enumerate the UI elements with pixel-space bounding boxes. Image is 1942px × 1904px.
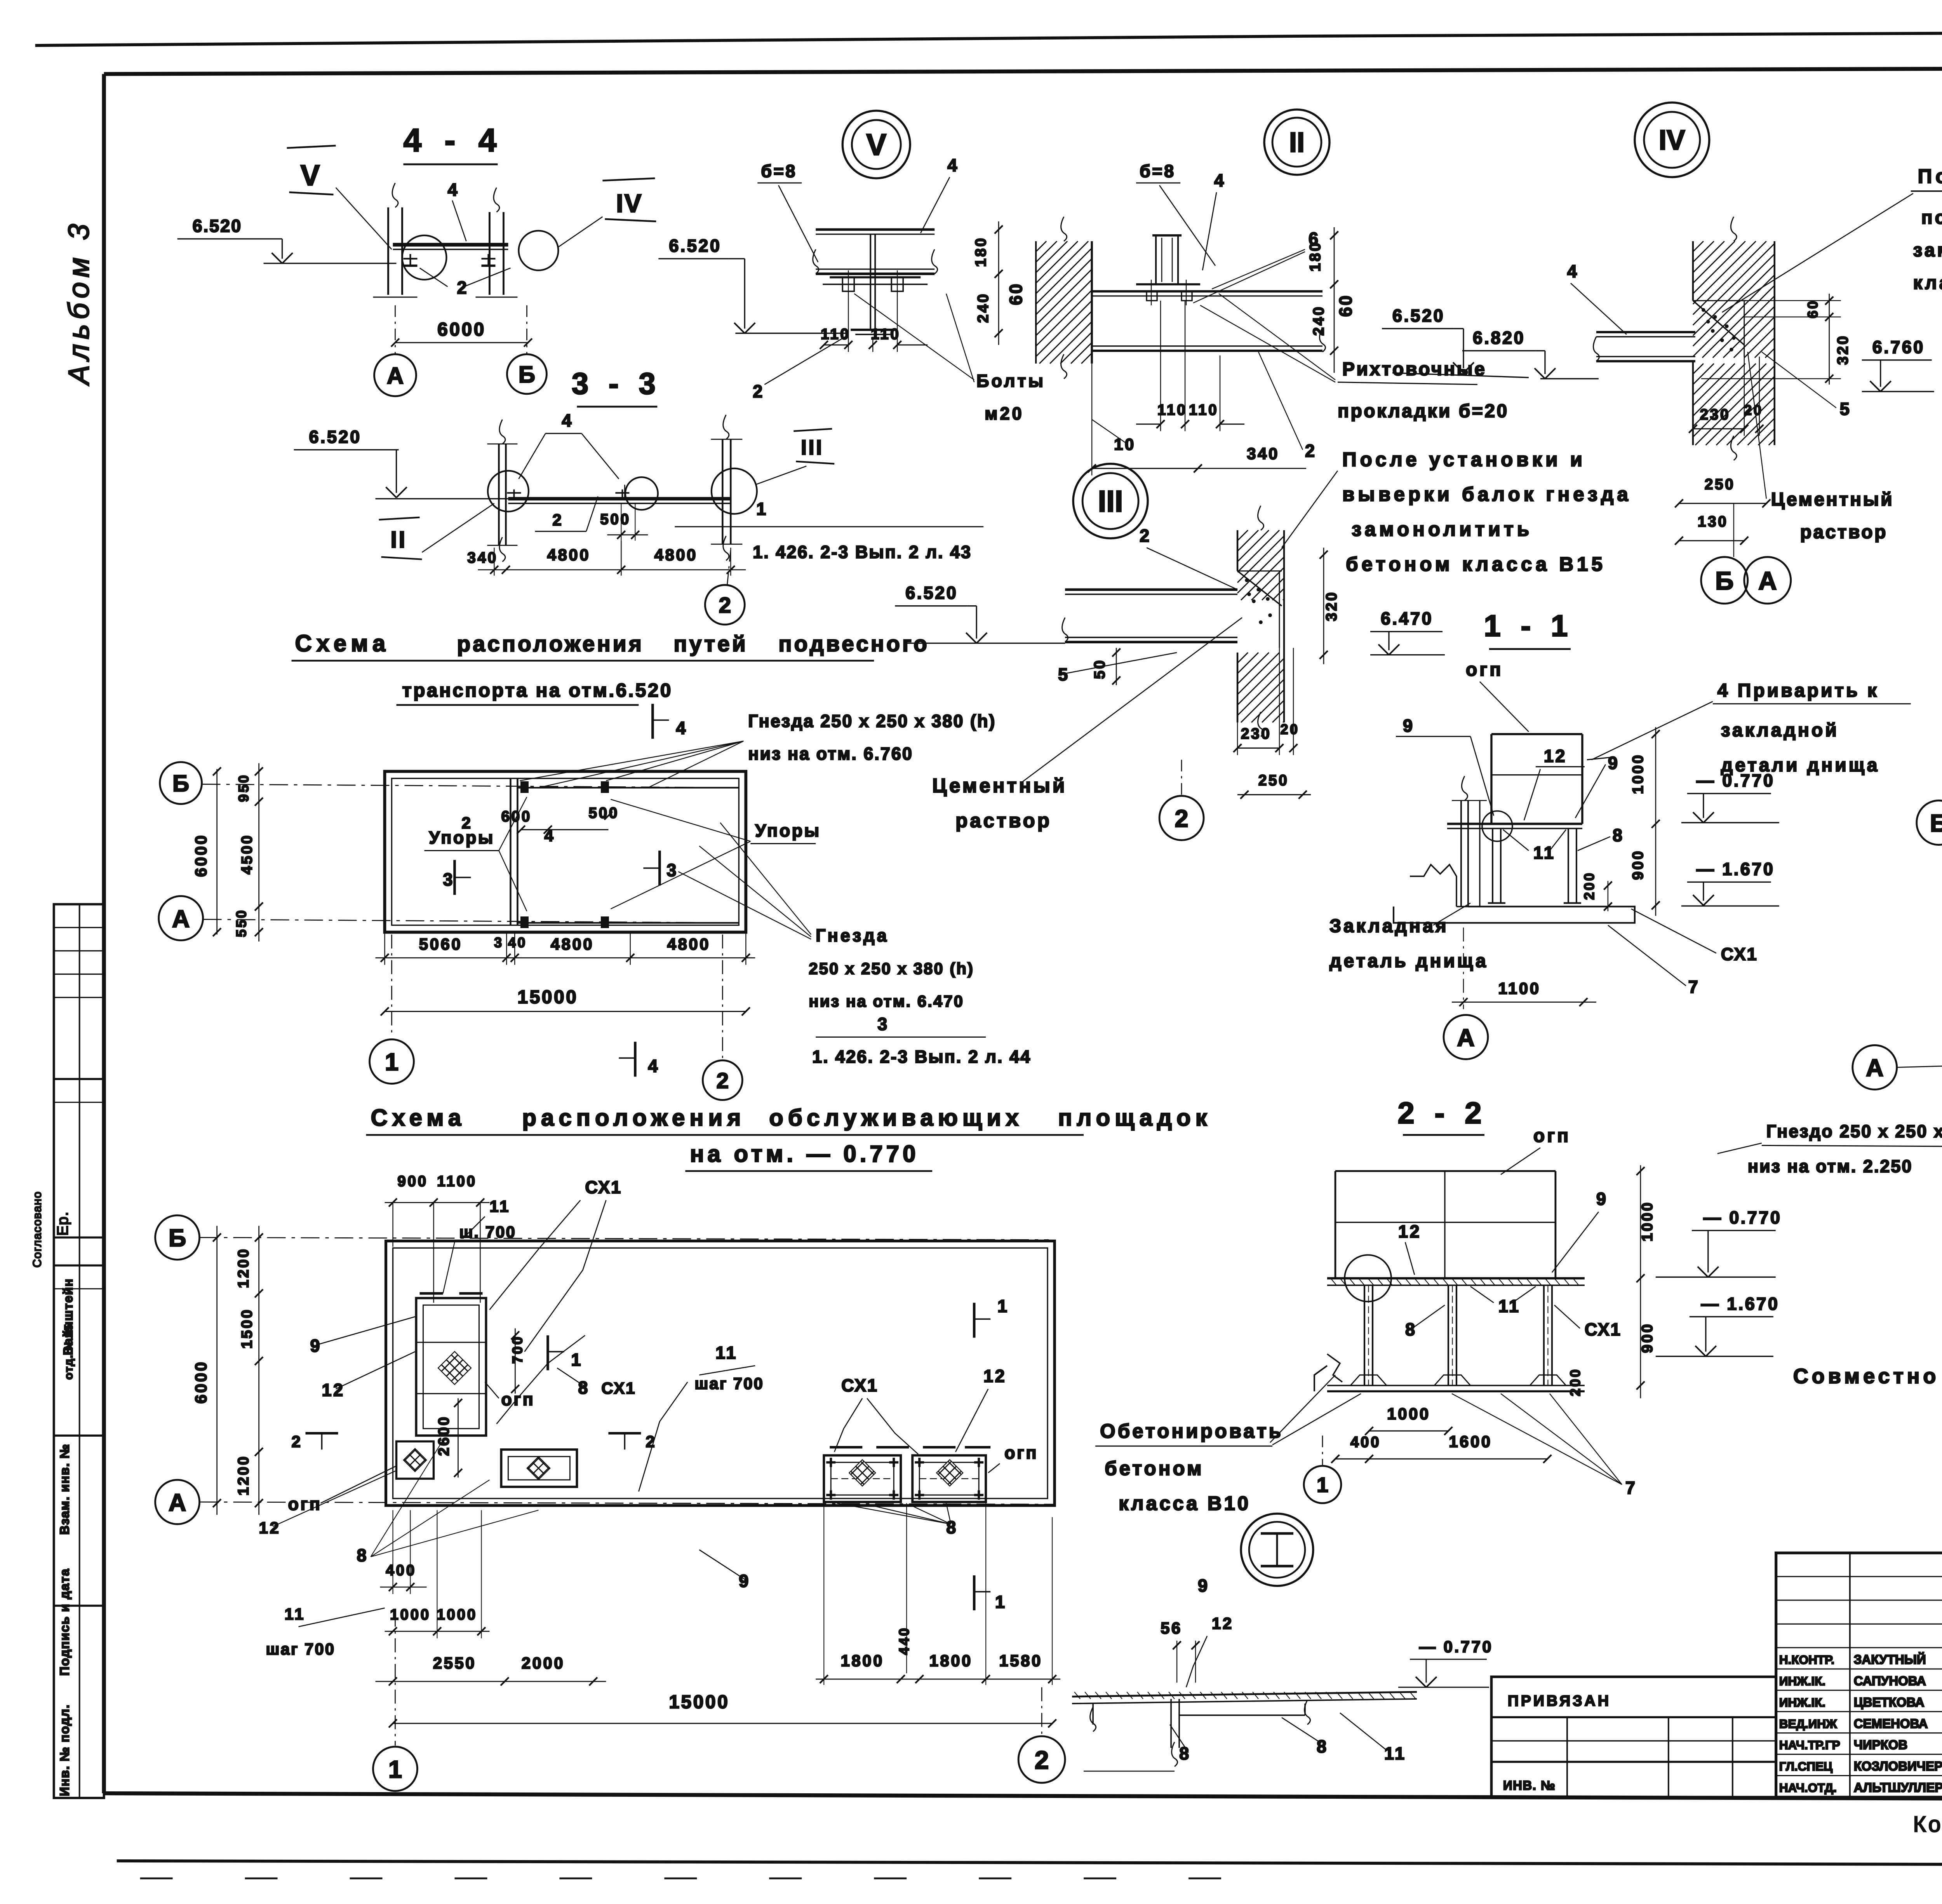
view 1-1 floor legs [1488, 829, 1581, 903]
svg-text:на отм. — 0.770: на отм. — 0.770 [690, 1141, 919, 1167]
plan -0.770 left dimension chains [192, 1226, 263, 1515]
svg-text:бетоном класса В15: бетоном класса В15 [1346, 553, 1606, 575]
elevation -0.770 on 1-1 [1681, 771, 1779, 823]
plan -0.770 top dimension 900 1100 [385, 1173, 489, 1303]
view 1-1 tank bottom profile [1394, 865, 1635, 923]
svg-text:250: 250 [1258, 772, 1289, 789]
fragment detail labels 9 56 12 [1161, 1576, 1234, 1687]
svg-text:6.520: 6.520 [905, 583, 958, 603]
detail IV beam [1593, 332, 1695, 361]
svg-text:Схема: Схема [295, 631, 390, 657]
svg-text:площадок: площадок [1058, 1104, 1212, 1131]
view 2-2 platform deck hatched [1327, 1278, 1585, 1285]
svg-text:низ на отм. 6.470: низ на отм. 6.470 [809, 992, 964, 1010]
label б=8 on detail V [757, 161, 818, 262]
svg-text:11: 11 [489, 1197, 510, 1215]
svg-text:низ на отм. 6.760: низ на отм. 6.760 [748, 744, 913, 764]
svg-text:2: 2 [1175, 805, 1189, 832]
detail III wall hatched with pocket [1237, 506, 1284, 737]
svg-text:1580: 1580 [999, 1651, 1042, 1670]
svg-text:2000: 2000 [522, 1654, 565, 1672]
svg-text:V: V [866, 127, 886, 162]
svg-text:6000: 6000 [437, 319, 486, 340]
section mark 1 and 2 inside plan [548, 1335, 656, 1451]
view 1-1 guard post box [1491, 734, 1582, 824]
schema title line 2: транспорта на отм.6.520 [396, 680, 672, 705]
svg-text:САПУНОВА: САПУНОВА [1854, 1674, 1926, 1688]
svg-text:III: III [801, 436, 823, 459]
plan -0.770 grid bubble А [155, 1480, 200, 1524]
svg-text:поз „4” гнездо: поз „4” гнездо [1921, 207, 1942, 228]
svg-text:2: 2 [552, 511, 563, 529]
svg-text:транспорта на отм.6.520: транспорта на отм.6.520 [402, 680, 672, 701]
elevation 6.520 on detail V [658, 236, 847, 333]
svg-text:2: 2 [1035, 1745, 1049, 1774]
plan -0.770 outline [386, 1241, 1055, 1505]
detail V bolts [842, 270, 903, 298]
svg-text:1000: 1000 [437, 1606, 477, 1623]
svg-text:6000: 6000 [192, 1360, 210, 1404]
svg-text:ш. 700: ш. 700 [459, 1223, 516, 1241]
grid bubble А right plan [1853, 1045, 1942, 1089]
plan 6.520 bottom dimension chain 5060 340 4800 4800 [375, 932, 755, 965]
dimension 6000 view 4-4 [391, 305, 532, 354]
svg-text:6.520: 6.520 [309, 427, 362, 447]
svg-text:НАЧ.ТР.ГР: НАЧ.ТР.ГР [1779, 1738, 1840, 1752]
labels 9 12 9 on 1-1 [1396, 716, 1619, 820]
view 4-4 right suspension post [475, 188, 517, 297]
svg-text:3: 3 [877, 1014, 889, 1034]
svg-text:250: 250 [1705, 476, 1735, 493]
detail III beam [1062, 590, 1237, 642]
svg-text:б=8: б=8 [761, 161, 797, 181]
fragment deck plates [1072, 1692, 1417, 1766]
view 3-3 right post [711, 415, 742, 561]
note Цементный раствор center [932, 618, 1270, 832]
svg-text:4800: 4800 [547, 546, 590, 564]
detail IV wall hatched with pocket [1693, 217, 1775, 460]
plan 6.520 grid bubble 1 [370, 935, 414, 1084]
section mark 2 left inside plan [292, 1432, 338, 1451]
svg-text:отд. N 15: отд. N 15 [63, 1324, 75, 1380]
dimensions 110 110 on detail II [1136, 301, 1244, 431]
svg-text:Согласовано: Согласовано [31, 1191, 44, 1268]
svg-text:9: 9 [1596, 1189, 1608, 1209]
view 4-4 title [403, 122, 503, 164]
dimension chain 180 60 240 detail V [973, 221, 1026, 345]
svg-text:ПРИВЯЗАН: ПРИВЯЗАН [1508, 1693, 1611, 1709]
svg-text:АЛЬТШУЛЛЕР: АЛЬТШУЛЛЕР [1854, 1780, 1942, 1794]
view marker III flag right of 3-3 [755, 429, 834, 485]
svg-text:4800: 4800 [667, 935, 710, 953]
svg-text:320: 320 [1835, 334, 1852, 365]
plan -0.770 right platform 2 [912, 1455, 986, 1502]
wall section hatched on detail II [1036, 217, 1092, 379]
svg-text:1500: 1500 [239, 1308, 256, 1349]
note Цементный раствор right of IV [1748, 352, 1894, 543]
svg-text:расположения: расположения [457, 632, 644, 657]
svg-text:расположения: расположения [522, 1104, 745, 1131]
svg-text:12: 12 [1212, 1614, 1234, 1632]
svg-text:11: 11 [715, 1343, 738, 1362]
svg-text:320: 320 [1323, 591, 1340, 621]
title block signature table [1776, 1553, 1942, 1797]
svg-text:12: 12 [322, 1380, 345, 1400]
dimension 2600 vertical inside plan [435, 1398, 462, 1477]
svg-text:4: 4 [447, 180, 459, 200]
leader curves from СХ1 to platforms [496, 1335, 585, 1424]
svg-text:180: 180 [1307, 241, 1324, 272]
plan 6.520 dims 600 500 labels 2 4 [461, 805, 619, 845]
plan 6.520 left dimension chains 950 4500 550 6000 [192, 763, 263, 942]
svg-text:5: 5 [1840, 399, 1852, 419]
svg-text:4: 4 [676, 718, 687, 738]
svg-text:900: 900 [397, 1173, 428, 1190]
elevation 6.520 on detail III [895, 583, 1065, 643]
svg-text:1 - 1: 1 - 1 [1484, 609, 1573, 643]
grid bubble 2 below 3-3 [705, 550, 745, 625]
svg-text:8: 8 [946, 1517, 958, 1537]
concrete speckle in III pocket [1246, 579, 1272, 624]
svg-text:7: 7 [1625, 1478, 1637, 1498]
svg-text:V: V [301, 159, 320, 192]
svg-text:6.820: 6.820 [1473, 328, 1525, 348]
labels СХ1 12 above right platforms [834, 1366, 1006, 1454]
fragment elevation -0.770 [1398, 1637, 1493, 1687]
svg-text:огп: огп [1004, 1443, 1038, 1463]
grid bubble А [374, 354, 416, 396]
svg-text:8: 8 [1613, 826, 1624, 845]
svg-text:20: 20 [1744, 402, 1763, 418]
detail V hanger web and bottom flange [851, 234, 895, 334]
note Обетонировать бетоном класса В10 [1095, 1375, 1361, 1514]
svg-text:1. 426. 2-3 Вып. 2 л. 44: 1. 426. 2-3 Вып. 2 л. 44 [812, 1047, 1031, 1066]
svg-text:950: 950 [236, 773, 252, 802]
svg-text:9: 9 [1403, 716, 1415, 736]
note Рихтовочные прокладки б=20 [1200, 294, 1509, 422]
dimension chain 1000 900 200 on 1-1 [1581, 727, 1660, 916]
label 11 шаг 700 bottom left [266, 1605, 385, 1658]
svg-text:Закладная: Закладная [1329, 916, 1449, 937]
svg-text:Болты: Болты [976, 371, 1046, 391]
label 4 with leader [447, 180, 466, 241]
svg-text:Совместно: Совместно [1793, 1364, 1940, 1388]
svg-text:выверки балок гнезда: выверки балок гнезда [1342, 483, 1632, 505]
svg-text:15000: 15000 [517, 987, 578, 1007]
labels 11 ш700 СХ1 top of plan -0.770 [443, 1177, 622, 1352]
svg-text:А: А [1866, 1054, 1883, 1082]
svg-text:8: 8 [1317, 1737, 1328, 1756]
detail V beam flanges [813, 230, 938, 274]
svg-text:Подпись и дата: Подпись и дата [57, 1568, 72, 1676]
svg-text:1: 1 [997, 1296, 1009, 1316]
svg-text:6.520: 6.520 [193, 216, 242, 236]
svg-text:9: 9 [739, 1571, 750, 1591]
section mark 1 lower [974, 1575, 1007, 1612]
note Гнезда 250x250x380 upper [520, 711, 996, 788]
svg-text:1100: 1100 [437, 1173, 477, 1190]
svg-text:11: 11 [1384, 1744, 1406, 1763]
svg-text:8: 8 [357, 1545, 369, 1565]
svg-text:4500: 4500 [239, 834, 256, 874]
svg-text:110: 110 [871, 326, 900, 343]
labels 8 11 СХ1 on 1-1 [1503, 826, 1758, 964]
svg-text:А: А [172, 905, 190, 932]
svg-text:60: 60 [1805, 299, 1821, 318]
label 5 on detail III [1058, 653, 1177, 685]
svg-text:НАЧ.ОТД.: НАЧ.ОТД. [1779, 1780, 1837, 1794]
svg-text:раствор: раствор [955, 810, 1052, 832]
svg-text:Инв. № подл.: Инв. № подл. [57, 1704, 72, 1796]
svg-text:240: 240 [975, 293, 992, 323]
plan 6.520 crane rails [517, 788, 739, 923]
detail I circle with I-beam symbol [1241, 1514, 1313, 1586]
svg-text:2: 2 [716, 1068, 729, 1093]
note После установки поз 4 гнездо замонолитить [1722, 165, 1942, 312]
svg-text:4800: 4800 [654, 546, 698, 564]
svg-text:56: 56 [1161, 1619, 1182, 1637]
svg-text:ГЛ.СПЕЦ: ГЛ.СПЕЦ [1779, 1759, 1832, 1773]
label 5 on detail IV [1762, 352, 1851, 419]
view 4-4 rail clamp left [403, 254, 417, 266]
bottom margin tick marks [140, 1878, 1221, 1879]
svg-text:После установки и: После установки и [1342, 448, 1586, 470]
grid bubble А below 1-1 [1444, 1015, 1488, 1059]
detail V circle [842, 111, 910, 178]
svg-text:6.760: 6.760 [1872, 337, 1925, 357]
plan -0.770 left platform group upper [416, 1293, 486, 1435]
svg-text:СХ1: СХ1 [1585, 1319, 1622, 1339]
svg-text:2: 2 [292, 1432, 303, 1451]
svg-text:1200: 1200 [235, 1455, 252, 1496]
svg-text:ЦВЕТКОВА: ЦВЕТКОВА [1854, 1695, 1925, 1709]
grid bubbles Б А below IV [1701, 557, 1791, 604]
svg-text:2550: 2550 [433, 1654, 476, 1672]
svg-text:2: 2 [646, 1432, 656, 1451]
dimension chain 1000 900 200 on 2-2 [1567, 1165, 1656, 1398]
svg-text:IV: IV [1659, 125, 1685, 156]
dimensions 250 130 below IV [1675, 476, 1770, 557]
schema title line 1: Схема расположения путей подвесного [292, 631, 929, 661]
svg-text:200: 200 [1567, 1368, 1583, 1397]
label 2 on detail II [1258, 352, 1317, 461]
label 2 on detail V [753, 336, 847, 401]
svg-text:Цементный: Цементный [1771, 490, 1894, 510]
svg-text:110: 110 [821, 326, 850, 343]
view 2-2 base floor [1314, 1354, 1585, 1391]
svg-text:240: 240 [1310, 305, 1327, 336]
svg-text:5: 5 [1058, 665, 1070, 685]
note После установки и выверки балок гнезда замонолитить бетоном класса В15 [1282, 448, 1632, 575]
label 4 on detail IV [1567, 261, 1627, 334]
svg-text:закладной: закладной [1721, 720, 1839, 741]
svg-text:огп: огп [1533, 1125, 1571, 1146]
overall dimension 15000 below plan [389, 1692, 1056, 1727]
view 4-4 monorail beam [393, 245, 508, 249]
svg-text:Альбом 3: Альбом 3 [63, 219, 95, 386]
plan 6.520 axis lines [202, 784, 743, 923]
svg-text:7: 7 [1688, 977, 1700, 996]
grid bubble 1 below plan -0.770 [373, 1613, 417, 1791]
svg-text:А: А [387, 362, 404, 388]
left schema title line 2: на отм -0.770 [685, 1141, 932, 1171]
detail circle left on 4-4 [402, 235, 446, 280]
svg-text:2: 2 [1305, 441, 1317, 461]
svg-text:110: 110 [1189, 402, 1218, 418]
view 2-2 title [1397, 1096, 1487, 1135]
svg-text:1200: 1200 [235, 1247, 252, 1288]
svg-text:600: 600 [501, 808, 532, 825]
svg-text:Цементный: Цементный [932, 775, 1067, 797]
svg-text:9: 9 [1608, 753, 1620, 773]
view 1-1 title [1484, 609, 1573, 649]
svg-text:раствор: раствор [1800, 522, 1888, 543]
svg-text:2: 2 [457, 278, 468, 298]
svg-text:шаг 700: шаг 700 [266, 1640, 336, 1658]
view 1-1 platform floor [1447, 824, 1582, 829]
detail V connection plates [823, 277, 927, 284]
note Гнезда 250x250x380 lower [678, 823, 974, 1010]
svg-text:340: 340 [467, 550, 498, 566]
plan -0.770 right platform 1 [824, 1455, 901, 1502]
labels 12 9 11 8 СХ1 on 2-2 [1398, 1189, 1622, 1339]
dimension 440 vertical below plan [896, 1503, 912, 1673]
dimension chain 340 4800 4800 below 3-3 [467, 541, 746, 576]
note Закладная деталь днища [1329, 903, 1488, 972]
label огп on 2-2 [1501, 1125, 1571, 1174]
detail circle on 1-1 joint [1482, 811, 1512, 841]
svg-text:IV: IV [616, 189, 642, 218]
svg-text:Упоры: Упоры [755, 821, 821, 841]
note Совместно с данным см.л.КМ-4 [1793, 1364, 1942, 1388]
svg-text:4: 4 [1567, 261, 1579, 281]
svg-text:4800: 4800 [551, 935, 594, 953]
label 4 on detail II [1202, 171, 1226, 270]
note 4 Приварить к закладной детали днища [1592, 681, 1911, 776]
svg-text:1800: 1800 [929, 1651, 972, 1670]
svg-text:1: 1 [388, 1756, 402, 1783]
svg-text:Взам. инв. №: Взам. инв. № [57, 1444, 72, 1535]
dimension chain 60 320 detail IV [1701, 294, 1852, 385]
svg-text:СХ1: СХ1 [601, 1379, 636, 1397]
note Болты М20 with leaders [854, 294, 1046, 423]
dimension 320 50 on detail III [1091, 548, 1340, 685]
plan 6.520 grid bubble Б [160, 762, 202, 804]
svg-text:подвесного: подвесного [778, 632, 929, 657]
view marker II flag left of 3-3 [379, 503, 494, 559]
svg-text:550: 550 [233, 909, 249, 937]
svg-text:6.470: 6.470 [1381, 609, 1433, 629]
view 3-3 title [572, 366, 661, 407]
plan -0.770 second platform with hatch [501, 1449, 577, 1487]
fragment labels 8 8 11 [1084, 1713, 1406, 1771]
plan -0.770 small platform lower-left [396, 1441, 433, 1479]
svg-text:4: 4 [648, 1056, 660, 1076]
label 6 on detail II [1193, 229, 1320, 303]
detail III circle [1073, 464, 1148, 538]
svg-text:10: 10 [1114, 435, 1136, 453]
detail circles on 3-3 [488, 469, 757, 514]
dimensions 110 110 on detail V [820, 298, 927, 352]
svg-text:1000: 1000 [390, 1606, 431, 1623]
svg-text:бетоном: бетоном [1105, 1457, 1204, 1479]
grid bubble Б right plan [1917, 801, 1942, 845]
stamp column vertical labels [31, 1191, 75, 1796]
svg-text:КОЗЛОВИЧЕР: КОЗЛОВИЧЕР [1854, 1759, 1942, 1773]
svg-text:20: 20 [1281, 721, 1300, 737]
plan -0.770 grid bubble Б [155, 1215, 200, 1259]
svg-text:110: 110 [1157, 402, 1187, 418]
svg-text:1: 1 [571, 1350, 583, 1369]
dimensions 230 20 on detail III [1234, 648, 1300, 755]
svg-text:Гнезда 250 x 250 x 380 (h): Гнезда 250 x 250 x 380 (h) [748, 711, 996, 731]
svg-text:СЕМЕНОВА: СЕМЕНОВА [1854, 1716, 1928, 1731]
svg-text:1600: 1600 [1449, 1432, 1492, 1451]
svg-text:ВЕД.ИНЖ: ВЕД.ИНЖ [1779, 1717, 1837, 1731]
dimension 500 on 3-3 [600, 503, 648, 541]
rail stubs above right platforms [830, 1447, 990, 1448]
dimension 1000 1600 below 2-2 [1331, 1404, 1551, 1463]
svg-text:А: А [169, 1489, 186, 1516]
label 3 and note 1.426.2-3 вып.2л.44 [812, 1014, 1031, 1066]
svg-text:шаг 700: шаг 700 [694, 1374, 764, 1392]
plan 6.520 grid bubble А [159, 896, 203, 941]
svg-text:Б: Б [1930, 810, 1942, 837]
svg-text:СХ1: СХ1 [1721, 944, 1758, 964]
svg-text:1: 1 [756, 499, 768, 519]
label огп right platforms [988, 1443, 1038, 1473]
label 1 with long leader and note 1.426.2-3 [675, 499, 983, 562]
svg-text:230: 230 [1241, 726, 1272, 742]
label Упоры right with leader [611, 800, 821, 909]
svg-text:— 0.770: — 0.770 [1419, 1637, 1493, 1656]
svg-text:1100: 1100 [1498, 979, 1540, 997]
svg-text:СХ1: СХ1 [585, 1177, 622, 1197]
elevation 6.820 on detail IV [1462, 328, 1599, 379]
svg-text:II: II [390, 527, 407, 553]
detail circle on 2-2 left joint [1345, 1255, 1391, 1301]
svg-text:огп: огп [288, 1494, 322, 1514]
svg-text:2: 2 [461, 814, 472, 832]
label 4 on detail V [921, 155, 959, 233]
svg-text:II: II [1289, 127, 1305, 158]
note Гнездо 250x250x380 низ на отм 2.250 [1718, 1084, 1942, 1176]
dimension 700 right of upper platform [509, 1328, 525, 1394]
svg-text:деталь днища: деталь днища [1329, 951, 1488, 971]
label 2 on detail III [1140, 526, 1237, 590]
svg-text:замонолитить бетоном: замонолитить бетоном [1913, 240, 1942, 261]
left stamp column table [54, 904, 104, 1798]
svg-text:Рихтовочные: Рихтовочные [1342, 359, 1486, 380]
view marker V (flag) [287, 146, 392, 249]
svg-text:А: А [1457, 1024, 1474, 1051]
svg-text:Гнезда: Гнезда [816, 926, 889, 946]
svg-text:230: 230 [1700, 406, 1731, 423]
plan 6.520 grid bubble 2 [703, 935, 742, 1100]
elevation -0.770 on 2-2 [1656, 1207, 1782, 1277]
svg-text:— 0.770: — 0.770 [1704, 1207, 1782, 1227]
svg-text:огп: огп [501, 1389, 535, 1409]
svg-text:детали днища: детали днища [1721, 755, 1880, 776]
view 3-3 rail clamps [507, 485, 629, 499]
svg-text:60: 60 [1336, 294, 1356, 317]
svg-text:1000: 1000 [1630, 753, 1646, 794]
svg-text:Обетонировать: Обетонировать [1100, 1420, 1283, 1442]
svg-text:2: 2 [1140, 526, 1151, 546]
svg-text:440: 440 [896, 1626, 912, 1655]
detail II beam [1092, 291, 1325, 352]
svg-text:3: 3 [666, 861, 678, 880]
